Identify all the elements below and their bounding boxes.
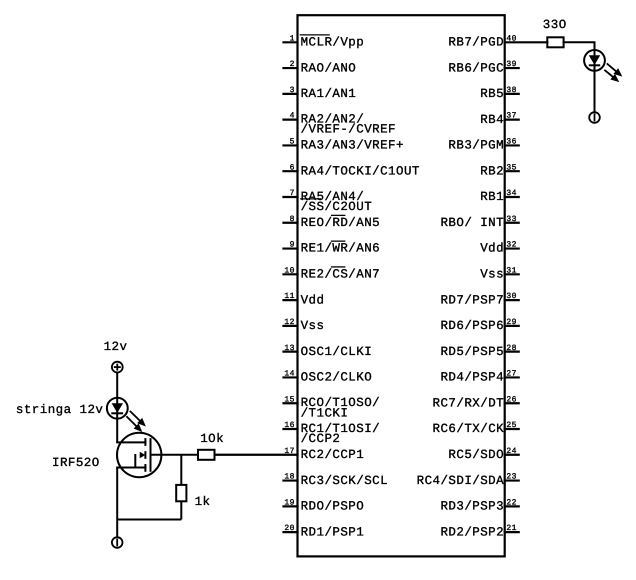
wire +12v to LED D1 and through to Q1 drain (116, 373, 118, 443)
svg-text:REO/RD/AN5: REO/RD/AN5 (301, 216, 381, 230)
pin 22 stub (505, 505, 519, 507)
svg-text:6: 6 (290, 163, 295, 172)
svg-text:31: 31 (506, 266, 517, 275)
resistor R3 1k (176, 485, 186, 501)
svg-text:RA4/TOCKI/C1OUT: RA4/TOCKI/C1OUT (301, 164, 420, 178)
pin 5 label RA3/AN3/VREF+ (301, 139, 404, 153)
pin 14 stub (284, 376, 298, 378)
svg-text:2: 2 (290, 60, 295, 69)
pin 3 label RA1/AN1 (301, 87, 357, 101)
pin 12 label Vss (301, 319, 325, 333)
svg-text:12: 12 (284, 318, 295, 327)
svg-text:10: 10 (284, 266, 295, 275)
svg-text:RA3/AN3/VREF+: RA3/AN3/VREF+ (301, 139, 404, 153)
svg-text:MCLR/Vpp: MCLR/Vpp (301, 36, 365, 50)
svg-text:RB4: RB4 (480, 113, 504, 127)
svg-text:14: 14 (284, 370, 295, 379)
LED D2 emission arrows (604, 63, 620, 80)
svg-text:Vss: Vss (480, 268, 504, 282)
pin 20 stub (284, 531, 298, 533)
svg-text:19: 19 (284, 498, 295, 507)
svg-text:39: 39 (506, 60, 517, 69)
pin 40 stub + wire to R1 330 (505, 41, 548, 43)
LED D2 circle (584, 50, 605, 71)
svg-text:34: 34 (506, 189, 517, 198)
svg-text:RC6/TX/CK: RC6/TX/CK (433, 422, 505, 436)
svg-text:38: 38 (506, 86, 517, 95)
pin 18 label RC3/SCK/SCL (301, 474, 388, 488)
svg-text:33O: 33O (543, 18, 567, 32)
LED D1 circle (107, 398, 128, 419)
svg-text:32: 32 (506, 241, 517, 250)
svg-text:RC2/CCP1: RC2/CCP1 (301, 448, 365, 462)
svg-text:RB6/PGC: RB6/PGC (448, 61, 504, 75)
pin 18 stub (284, 479, 298, 481)
pin 11 label Vdd (301, 293, 325, 307)
svg-text:11: 11 (284, 292, 295, 301)
pin 9 label RE1/WR/AN6 (301, 241, 381, 256)
LED D1 diode symbol (111, 403, 123, 413)
svg-text:RC7/RX/DT: RC7/RX/DT (433, 396, 505, 410)
wire Q1 source down (116, 468, 118, 538)
svg-text:OSC2/CLKO: OSC2/CLKO (301, 371, 373, 385)
pin 37 stub (505, 119, 519, 121)
svg-text:4: 4 (290, 112, 295, 121)
pin 7 label RA5/AN4/ (300, 190, 372, 214)
svg-text:35: 35 (506, 163, 517, 172)
wire R1 to LED D2 corner (564, 42, 595, 50)
pin 24 stub (505, 454, 519, 456)
svg-text:RD4/PSP4: RD4/PSP4 (440, 371, 504, 385)
port terminal (output) top-right (589, 112, 600, 123)
pin 29 stub (505, 325, 519, 327)
svg-text:/VREF-/CVREF: /VREF-/CVREF (301, 123, 396, 137)
svg-text:1: 1 (290, 34, 295, 43)
pin 28 stub (505, 351, 519, 353)
pin 4 stub (284, 119, 298, 121)
svg-text:28: 28 (506, 344, 517, 353)
svg-text:RE1/WR/AN6: RE1/WR/AN6 (301, 242, 381, 256)
svg-text:22: 22 (506, 498, 517, 507)
pin 35 stub (505, 170, 519, 172)
svg-text:RD6/PSP6: RD6/PSP6 (440, 319, 504, 333)
svg-text:17: 17 (284, 447, 295, 456)
pin 34 stub (505, 196, 519, 198)
svg-text:RB1: RB1 (480, 190, 504, 204)
svg-text:RA1/AN1: RA1/AN1 (301, 87, 357, 101)
pin 7 stub (284, 196, 298, 198)
svg-text:/T1CKI: /T1CKI (301, 406, 349, 420)
pin 21 stub (505, 531, 519, 533)
svg-text:20: 20 (284, 524, 295, 533)
svg-text:RD7/PSP7: RD7/PSP7 (440, 293, 504, 307)
svg-text:RBO/ INT: RBO/ INT (440, 216, 504, 230)
svg-text:Vdd: Vdd (480, 242, 504, 256)
pin 2 label RA0/AN0 (301, 61, 357, 75)
pin 3 stub (284, 93, 298, 95)
pin 33 stub (505, 222, 519, 224)
pin 25 stub (505, 428, 519, 430)
svg-text:RDO/PSPO: RDO/PSPO (301, 500, 365, 514)
svg-text:25: 25 (506, 421, 517, 430)
svg-text:30: 30 (506, 292, 517, 301)
svg-text:Vdd: Vdd (301, 293, 325, 307)
port terminal bottom-left (112, 537, 123, 548)
svg-text:1Ok: 1Ok (200, 432, 224, 446)
pin 32 stub (505, 247, 519, 249)
wire Q1 gate to R2 10k (151, 454, 199, 456)
wire R3 bottom to ground rail (180, 501, 182, 519)
pin 14 label OSC2/CLKO (301, 371, 373, 385)
svg-text:RC5/SDO: RC5/SDO (448, 448, 504, 462)
pin 12 stub (284, 325, 298, 327)
pin 15 stub (284, 402, 298, 404)
svg-text:24: 24 (506, 447, 517, 456)
svg-text:/SS/C2OUT: /SS/C2OUT (301, 200, 373, 214)
svg-text:7: 7 (290, 189, 295, 198)
pin 5 stub (284, 144, 298, 146)
pin 16 stub (284, 428, 298, 430)
pin 4 label RA2/AN2/ (301, 113, 396, 137)
pin 13 stub (284, 351, 298, 353)
svg-text:RD3/PSP3: RD3/PSP3 (440, 500, 504, 514)
pin 6 label RA4/T0CKI/C1OUT (301, 164, 420, 178)
ground rail wire (117, 519, 181, 521)
pin 13 label OSC1/CLKI (301, 345, 373, 359)
wire gate node down to R3 1k (180, 455, 182, 485)
svg-text:RD1/PSP1: RD1/PSP1 (301, 525, 365, 539)
pin 10 stub (284, 273, 298, 275)
svg-text:27: 27 (506, 370, 517, 379)
svg-text:16: 16 (284, 421, 295, 430)
pin 31 stub (505, 273, 519, 275)
svg-text:RB5: RB5 (480, 87, 504, 101)
pin 26 stub (505, 402, 519, 404)
resistor R2 10k (198, 450, 215, 460)
svg-text:26: 26 (506, 395, 517, 404)
svg-text:1k: 1k (195, 495, 211, 509)
svg-text:9: 9 (290, 241, 295, 250)
LED D2 diode symbol (589, 55, 600, 65)
svg-text:8: 8 (290, 215, 295, 224)
pin 8 stub (284, 222, 298, 224)
pin 10 label RE2/CS/AN7 (301, 267, 381, 282)
svg-text:37: 37 (506, 112, 517, 121)
pin 1 label MCLR/Vpp (300, 35, 365, 50)
svg-text:IRF52O: IRF52O (52, 456, 100, 470)
wire through LED D2 down to port (594, 50, 596, 112)
svg-text:18: 18 (284, 473, 295, 482)
svg-text:13: 13 (284, 344, 295, 353)
pin 16 label RC1/T1OSI/ (301, 422, 381, 446)
pin 17 stub + wire from R2 10k (215, 454, 298, 456)
svg-text:23: 23 (506, 473, 517, 482)
svg-text:36: 36 (506, 138, 517, 147)
svg-text:3: 3 (290, 86, 295, 95)
pin 20 label RD1/PSP1 (301, 525, 365, 539)
svg-text:33: 33 (506, 215, 517, 224)
svg-text:OSC1/CLKI: OSC1/CLKI (301, 345, 373, 359)
pin 15 label RC0/T1OSO/ (301, 396, 381, 420)
svg-text:RB2: RB2 (480, 164, 504, 178)
pin 19 stub (284, 505, 298, 507)
pin 6 stub (284, 170, 298, 172)
svg-text:15: 15 (284, 395, 295, 404)
pin 1 stub (284, 41, 298, 43)
svg-text:/CCP2: /CCP2 (301, 432, 341, 446)
pin 36 stub (505, 144, 519, 146)
svg-text:RC4/SDI/SDA: RC4/SDI/SDA (417, 474, 505, 488)
svg-text:12v: 12v (104, 340, 128, 354)
pin 8 label RE0/RD/AN5 (301, 215, 381, 230)
svg-text:RC3/SCK/SCL: RC3/SCK/SCL (301, 474, 388, 488)
svg-text:RE2/CS/AN7: RE2/CS/AN7 (301, 268, 381, 282)
pin 11 stub (284, 299, 298, 301)
svg-text:29: 29 (506, 318, 517, 327)
pin 17 label RC2/CCP1 (301, 448, 365, 462)
LED D1 emission arrows (126, 411, 144, 431)
pin 19 label RD0/PSP0 (301, 500, 365, 514)
svg-text:RAO/ANO: RAO/ANO (301, 61, 357, 75)
pin 9 stub (284, 247, 298, 249)
pin 23 stub (505, 479, 519, 481)
pin 39 stub (505, 67, 519, 69)
svg-text:21: 21 (506, 524, 517, 533)
svg-text:Vss: Vss (301, 319, 325, 333)
svg-text:RB7/PGD: RB7/PGD (448, 36, 504, 50)
transistor Q1 IRF520 (117, 433, 161, 477)
pin 30 stub (505, 299, 519, 301)
pin 2 stub (284, 67, 298, 69)
power terminal +12v (112, 362, 123, 373)
svg-text:RD2/PSP2: RD2/PSP2 (440, 525, 504, 539)
svg-text:RB3/PGM: RB3/PGM (448, 139, 504, 153)
svg-text:RD5/PSP5: RD5/PSP5 (440, 345, 504, 359)
svg-text:stringa 12v: stringa 12v (16, 403, 104, 417)
svg-text:40: 40 (506, 34, 517, 43)
pin 27 stub (505, 376, 519, 378)
svg-text:5: 5 (290, 138, 295, 147)
IC U1 PIC16F877A body (298, 15, 505, 556)
pin 38 stub (505, 93, 519, 95)
Q1 bulk arrow (140, 452, 146, 459)
resistor R1 330 (547, 37, 563, 47)
